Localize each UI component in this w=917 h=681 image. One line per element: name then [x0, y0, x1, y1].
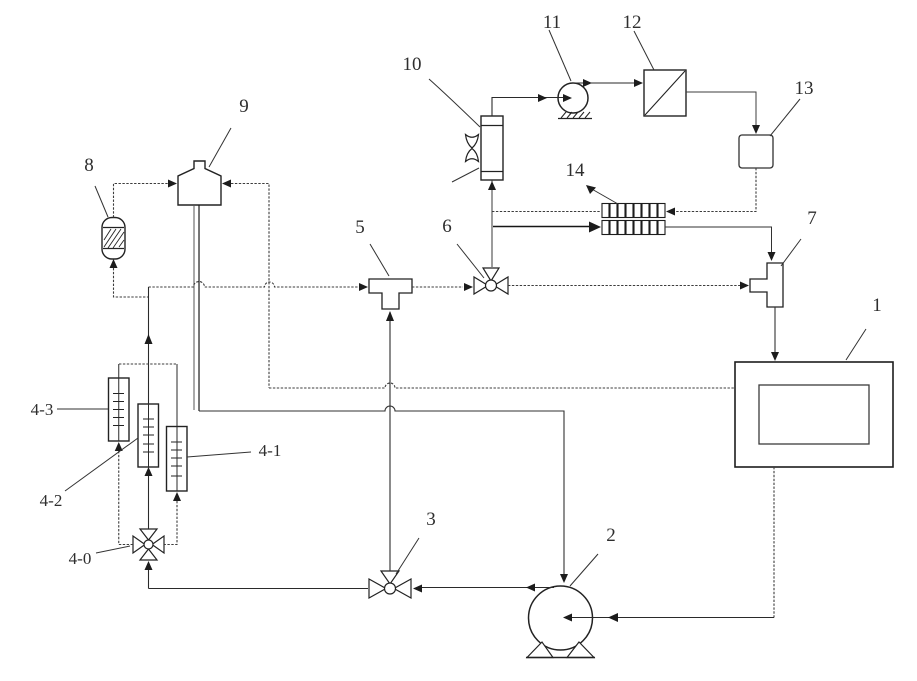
- pump 2: [526, 586, 595, 658]
- valve 4-0: [133, 529, 164, 560]
- pump 11: [558, 83, 592, 119]
- arrow into exchanger bottom row left: [589, 222, 601, 233]
- svg-text:7: 7: [807, 208, 817, 229]
- arrow on pump 11 inlet: [538, 94, 547, 102]
- arrow down into tee 7 top: [768, 252, 776, 261]
- leader label 6: [457, 244, 484, 278]
- arrow at pump 2 center: [563, 614, 572, 622]
- leader label 4-0: [96, 546, 130, 553]
- wire column 10 top to pump 11: [492, 98, 563, 117]
- wire separator 12 to buffer 13: [686, 92, 756, 126]
- leader label 4-2: [65, 438, 138, 491]
- flow meter 4-3: [109, 378, 130, 441]
- arrow into tee 7 tab: [740, 282, 749, 290]
- heat exchanger 14 bottom row: [602, 221, 665, 235]
- wire chamber 1 bottom loop to pump 2: [773, 467, 775, 618]
- tee fitting 5: [369, 279, 412, 309]
- svg-text:12: 12: [623, 12, 642, 33]
- filter 8: [102, 218, 125, 260]
- svg-text:11: 11: [543, 12, 561, 33]
- wire return line from chamber 1 left to node x269: [269, 383, 735, 388]
- wire valve 6 branch to exchanger bottom row: [493, 226, 591, 228]
- svg-text:3: 3: [426, 509, 436, 530]
- arrow into tee 5 left: [359, 283, 368, 291]
- arrow up into meter 4-1: [173, 492, 181, 501]
- wire tank 9 right inlet from node x269: [231, 184, 269, 389]
- svg-text:4-1: 4-1: [259, 441, 282, 460]
- leader stray at column 10: [452, 168, 479, 182]
- wire filter 8 top to tank 9 left inlet: [114, 184, 169, 218]
- arrow on pump 11 outlet: [583, 79, 592, 87]
- wire exchanger top row to column 10: [492, 211, 601, 213]
- wire exchanger bottom row to tee 7 top: [665, 227, 772, 252]
- tee fitting 7: [750, 263, 783, 307]
- tank 9: [178, 161, 221, 205]
- wire vertical x492 column 10 to valve 6: [491, 180, 493, 267]
- wire tank 9 drain double line: [193, 205, 195, 410]
- wire meter 4-2 centerline: [148, 404, 150, 467]
- svg-text:13: 13: [795, 78, 814, 99]
- arrow up into tee 5 stem: [386, 311, 394, 321]
- wire valve 4-0 bottom to bottom line: [148, 570, 150, 589]
- valve 6: [474, 268, 508, 294]
- arrow up on riser x148: [145, 334, 153, 344]
- leader label 4-3: [57, 408, 108, 410]
- wire meter 4-2 bottom to valve 4-0 top: [148, 476, 150, 529]
- svg-text:14: 14: [566, 160, 586, 181]
- arrow down into buffer 13: [752, 125, 760, 134]
- svg-text:4-2: 4-2: [40, 491, 63, 510]
- leader label 7: [781, 239, 801, 266]
- leader label 2: [570, 554, 598, 586]
- dryer column 10: [481, 116, 503, 180]
- wire tee 5 to valve 6: [412, 286, 463, 288]
- arrow down into chamber 1 top: [771, 352, 779, 361]
- valve 3: [369, 571, 411, 598]
- svg-text:1: 1: [872, 295, 882, 316]
- wire bottom line valve 3 to valve 4-0: [149, 588, 369, 590]
- svg-text:8: 8: [84, 155, 94, 176]
- arrow on pump 2 outlet: [526, 584, 535, 592]
- wire riser x148 from header to meter 4-2: [148, 287, 150, 404]
- arrow into separator 12: [634, 79, 643, 87]
- leader label 4-1: [187, 452, 251, 457]
- svg-text:10: 10: [403, 54, 422, 75]
- leader label 8: [95, 186, 108, 217]
- leader label 10: [429, 79, 480, 127]
- leader label 14 with arrow: [590, 188, 618, 204]
- svg-text:4-3: 4-3: [31, 400, 54, 419]
- wire meter 4-3 riser and centerline: [118, 364, 120, 441]
- arrow into valve 3 right: [413, 585, 422, 593]
- arrow down into pump 2 top: [560, 574, 568, 583]
- arrow at pump 11 center: [563, 94, 572, 102]
- wire filter 8 bottom drain: [114, 268, 149, 297]
- wire drain line to pump 2 top: [199, 406, 564, 581]
- leader label 12: [634, 31, 654, 70]
- arrow up into meter 4-2: [145, 467, 153, 476]
- arrow into tank 9 right: [222, 180, 231, 188]
- wire meter 4-1 riser and centerline: [176, 364, 178, 491]
- wire meter 4-1 bottom to valve 4-0 right: [164, 501, 177, 545]
- wire meter top header: [119, 363, 177, 365]
- wire meter 4-3 bottom to valve 4-0 left: [119, 451, 133, 545]
- wire tee 5 stem to valve 3 top: [389, 312, 391, 571]
- arrow into tank 9 left: [168, 180, 177, 188]
- arrow up into meter 4-3: [115, 442, 123, 451]
- arrow up into valve 4-0 bottom: [145, 561, 153, 570]
- fan symbol of column 10: [466, 135, 479, 162]
- svg-text:5: 5: [355, 217, 365, 238]
- heat exchanger 14 top row: [602, 204, 665, 218]
- svg-text:6: 6: [442, 216, 452, 237]
- leader label 13: [770, 99, 800, 136]
- flow meter 4-2: [138, 404, 159, 467]
- flow meter 4-1: [167, 427, 188, 492]
- svg-text:9: 9: [239, 96, 249, 117]
- wire tee 7 bottom to chamber 1 top: [774, 307, 776, 352]
- svg-text:4-0: 4-0: [69, 549, 92, 568]
- leader label 11: [549, 30, 571, 81]
- leader label 5: [370, 244, 389, 276]
- arrow into exchanger top row right: [666, 208, 675, 216]
- leader label 9: [209, 128, 231, 167]
- arrow up into column 10 bottom: [488, 181, 496, 190]
- wire valve 6 to tee 7 tab: [508, 285, 740, 287]
- arrow on pump 2 right inlet: [608, 613, 618, 622]
- wire main suction header y287: [149, 282, 364, 288]
- leader label 3: [396, 538, 419, 574]
- wire buffer 13 to exchanger top row: [675, 168, 756, 212]
- wire pump 11 outlet to separator 12: [573, 82, 636, 84]
- leader label 1: [846, 329, 866, 360]
- buffer tank 13: [739, 135, 773, 168]
- wire pump 2 outlet to valve 3: [420, 587, 554, 589]
- arrow into valve 6 left: [464, 283, 473, 291]
- svg-text:2: 2: [606, 525, 616, 546]
- separator 12: [644, 70, 686, 116]
- test chamber 1: [735, 362, 893, 467]
- arrow into filter 8 bottom: [110, 259, 118, 268]
